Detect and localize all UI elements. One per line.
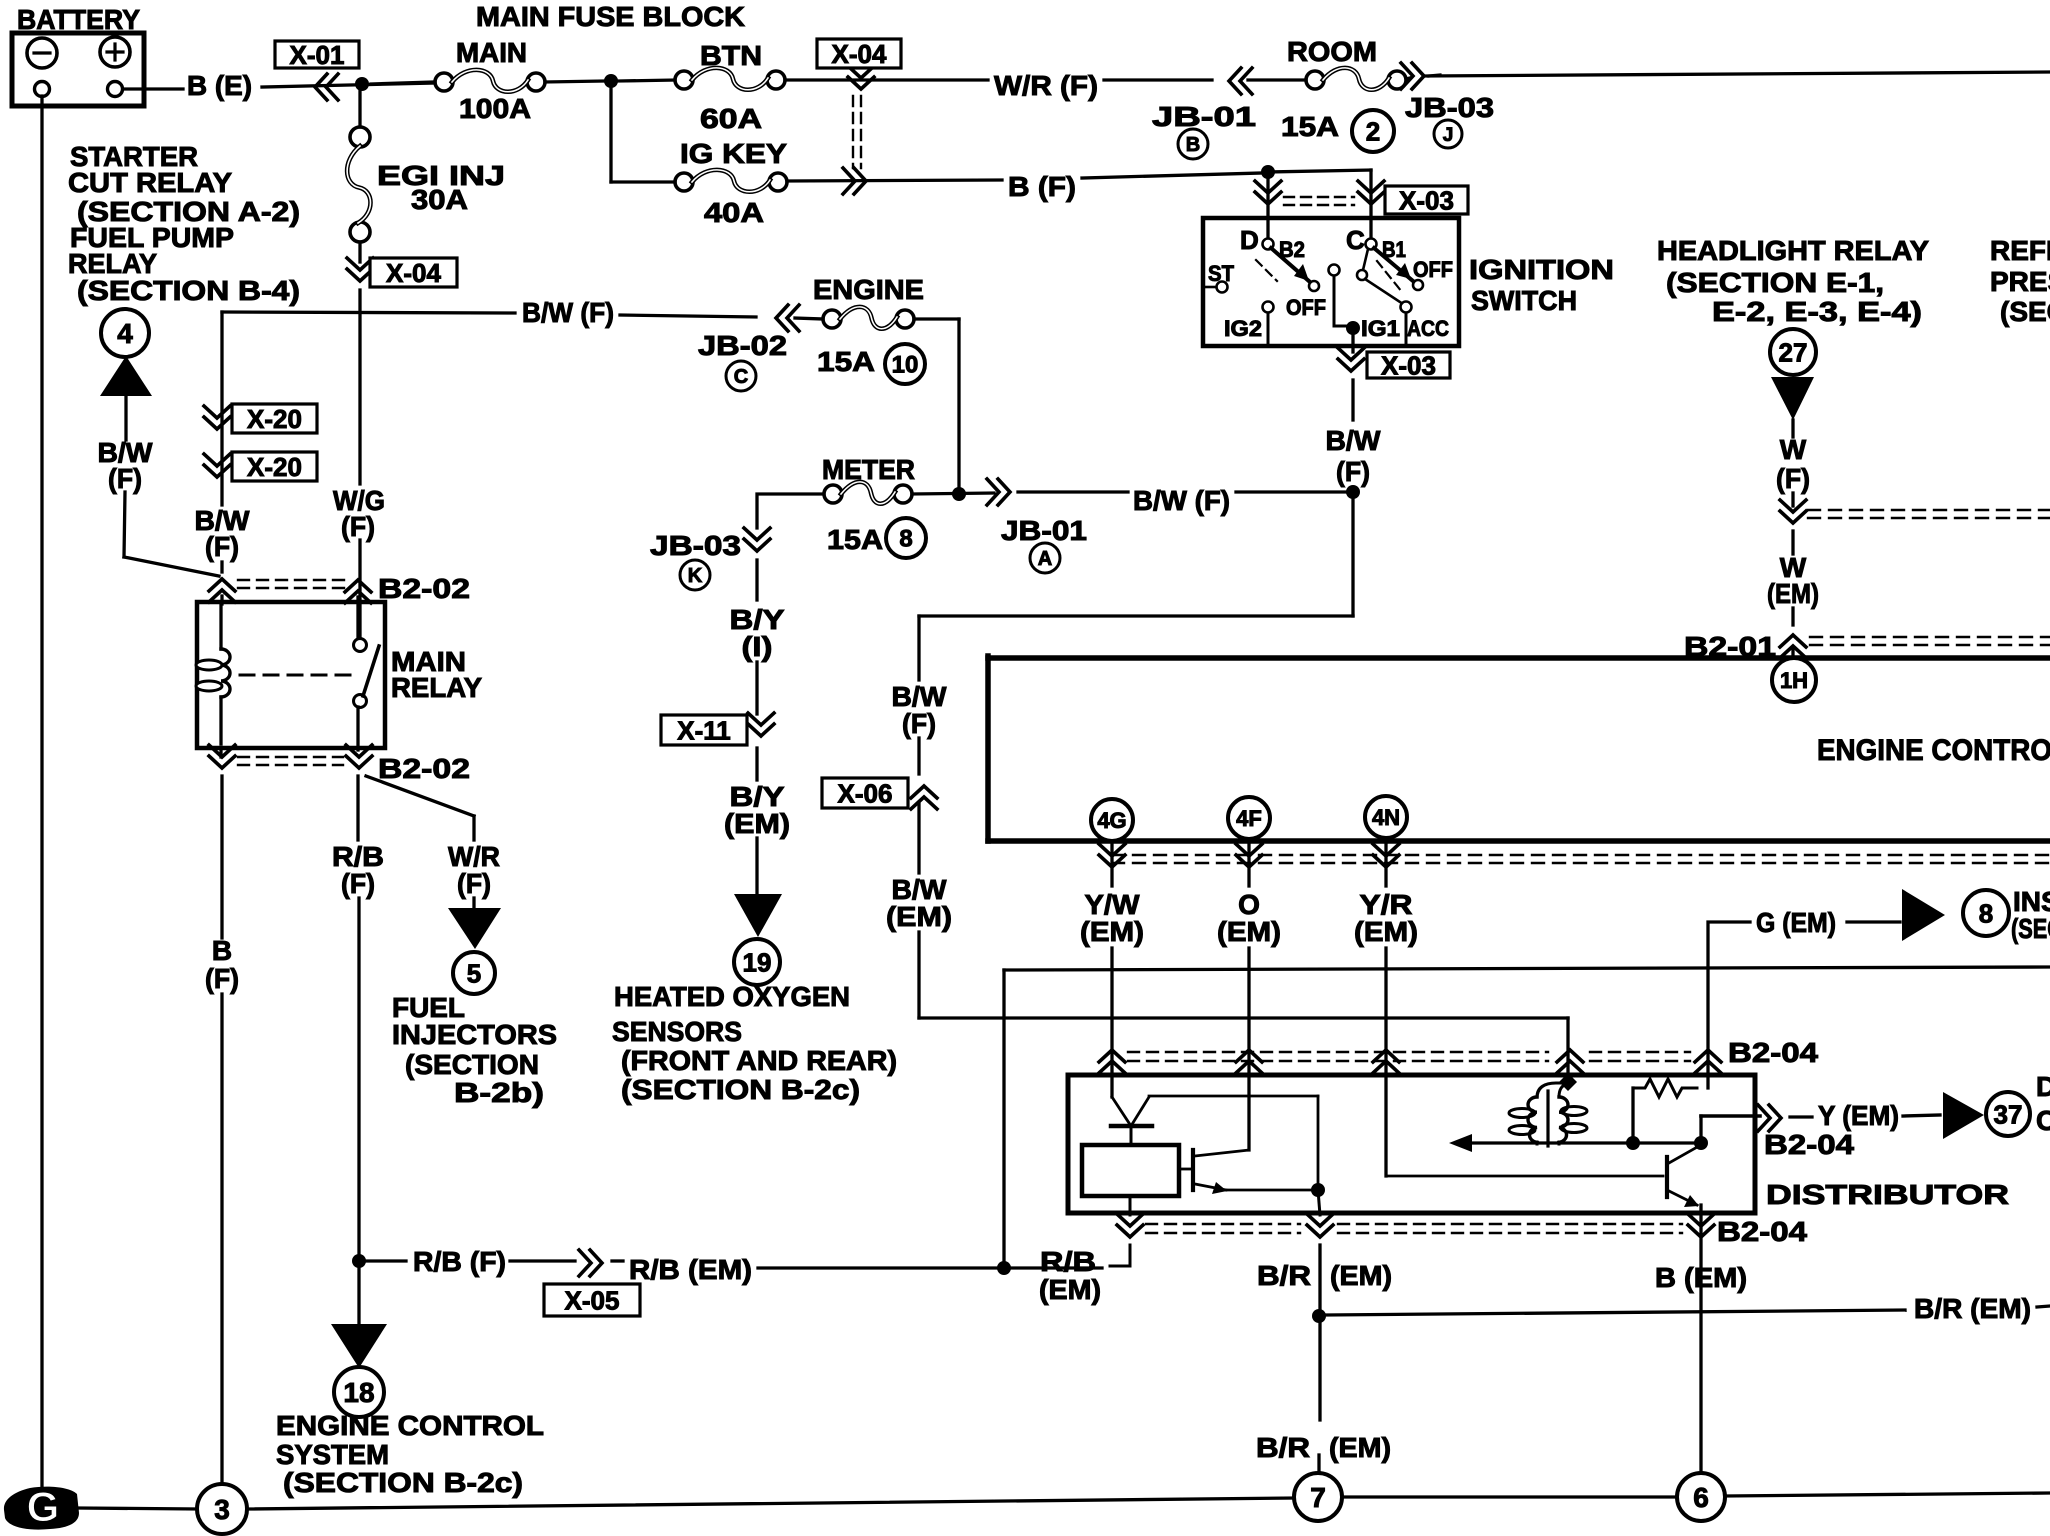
svg-text:C: C: [734, 366, 748, 388]
svg-text:B/R: B/R: [1257, 1260, 1311, 1291]
svg-text:B2-04: B2-04: [1728, 1037, 1819, 1068]
svg-text:K: K: [688, 565, 703, 587]
svg-text:IG KEY: IG KEY: [680, 138, 787, 169]
svg-text:X-11: X-11: [677, 715, 731, 745]
svg-text:15A: 15A: [827, 524, 883, 555]
svg-text:4: 4: [117, 318, 133, 349]
svg-text:18: 18: [343, 1377, 374, 1408]
svg-text:B/W (F): B/W (F): [1133, 485, 1230, 516]
svg-text:E-2, E-3, E-4): E-2, E-3, E-4): [1712, 296, 1922, 327]
svg-text:X-03: X-03: [1381, 350, 1436, 380]
svg-text:C: C: [2036, 1105, 2050, 1136]
svg-text:B2-02: B2-02: [378, 753, 470, 784]
svg-text:(F): (F): [1336, 456, 1370, 487]
svg-text:(F): (F): [205, 963, 239, 994]
svg-text:B (F): B (F): [1008, 171, 1076, 202]
svg-text:DISTRIBUTOR: DISTRIBUTOR: [1766, 1179, 2009, 1210]
svg-text:(SEC: (SEC: [2000, 296, 2050, 327]
svg-text:(F): (F): [108, 463, 142, 494]
svg-text:B2-04: B2-04: [1764, 1129, 1855, 1160]
svg-text:4G: 4G: [1097, 808, 1126, 833]
svg-text:(F): (F): [205, 531, 239, 562]
svg-text:IGNITION: IGNITION: [1469, 254, 1614, 285]
svg-text:D: D: [1240, 225, 1259, 255]
svg-text:(EM): (EM): [1329, 1432, 1391, 1463]
svg-text:(EM): (EM): [724, 808, 790, 839]
svg-text:(SECTION: (SECTION: [405, 1049, 539, 1080]
svg-text:MAIN: MAIN: [456, 37, 527, 68]
svg-text:INJECTORS: INJECTORS: [392, 1019, 557, 1050]
svg-text:W/R (F): W/R (F): [994, 70, 1098, 101]
svg-text:X-04: X-04: [832, 39, 887, 69]
svg-text:8: 8: [1979, 898, 1993, 928]
svg-text:B (EM): B (EM): [1655, 1262, 1747, 1293]
svg-text:4N: 4N: [1372, 805, 1400, 830]
svg-text:SENSORS: SENSORS: [612, 1016, 742, 1047]
svg-text:D: D: [2036, 1071, 2050, 1102]
svg-text:(I): (I): [742, 631, 773, 662]
svg-text:R/B (EM): R/B (EM): [629, 1254, 752, 1285]
svg-text:JB-01: JB-01: [1001, 515, 1087, 546]
svg-text:5: 5: [467, 958, 481, 988]
svg-text:SWITCH: SWITCH: [1471, 285, 1577, 316]
svg-text:(F): (F): [1776, 463, 1810, 494]
svg-text:15A: 15A: [1281, 111, 1339, 142]
svg-text:B-2b): B-2b): [454, 1077, 544, 1108]
svg-text:HEATED OXYGEN: HEATED OXYGEN: [614, 981, 850, 1012]
svg-text:X-20: X-20: [247, 452, 302, 482]
svg-text:6: 6: [1693, 1482, 1709, 1513]
svg-text:27: 27: [1779, 337, 1808, 367]
svg-text:B (E): B (E): [187, 70, 252, 101]
svg-text:B2-04: B2-04: [1717, 1216, 1808, 1247]
svg-text:ACC: ACC: [1407, 316, 1449, 341]
svg-text:Y (EM): Y (EM): [1818, 1100, 1899, 1131]
svg-text:CUT RELAY: CUT RELAY: [68, 167, 232, 198]
svg-text:RELAY: RELAY: [391, 672, 482, 703]
svg-text:IG2: IG2: [1224, 316, 1262, 341]
svg-text:B/R: B/R: [1256, 1432, 1310, 1463]
svg-text:REFR: REFR: [1990, 235, 2050, 266]
svg-text:BATTERY: BATTERY: [17, 4, 140, 35]
svg-text:R/B (F): R/B (F): [413, 1246, 506, 1277]
svg-text:(EM): (EM): [1354, 916, 1418, 947]
svg-text:(SECTION B-2c): (SECTION B-2c): [283, 1467, 523, 1498]
svg-text:(F): (F): [341, 868, 375, 899]
svg-text:B/R (EM): B/R (EM): [1914, 1293, 2031, 1324]
svg-text:B: B: [212, 935, 232, 966]
svg-text:4F: 4F: [1236, 806, 1262, 831]
svg-text:PRES: PRES: [1990, 266, 2050, 297]
svg-text:OFF: OFF: [1286, 295, 1326, 320]
svg-text:HEADLIGHT RELAY: HEADLIGHT RELAY: [1657, 235, 1929, 266]
svg-text:A: A: [1038, 548, 1052, 570]
svg-text:37: 37: [1994, 1099, 2023, 1129]
svg-text:2: 2: [1366, 116, 1380, 146]
svg-text:X-06: X-06: [838, 778, 893, 808]
svg-text:JB-01: JB-01: [1152, 101, 1256, 132]
svg-text:X-05: X-05: [565, 1285, 620, 1315]
svg-text:(EM): (EM): [1330, 1260, 1392, 1291]
svg-text:G (EM): G (EM): [1756, 907, 1836, 938]
svg-text:(F): (F): [457, 868, 491, 899]
svg-text:X-20: X-20: [247, 404, 302, 434]
svg-text:C: C: [1346, 225, 1365, 255]
svg-text:JB-02: JB-02: [698, 330, 787, 361]
svg-text:SYSTEM: SYSTEM: [276, 1439, 389, 1470]
svg-text:(SECTION B-2c): (SECTION B-2c): [621, 1074, 860, 1105]
svg-text:W: W: [1780, 434, 1807, 465]
svg-text:JB-03: JB-03: [1405, 92, 1494, 123]
svg-text:(EM): (EM): [1217, 916, 1281, 947]
svg-text:B/W: B/W: [1326, 425, 1382, 456]
svg-text:G: G: [27, 1483, 60, 1530]
svg-text:30A: 30A: [411, 184, 468, 215]
svg-text:(SEC: (SEC: [2011, 913, 2050, 944]
svg-text:IG1: IG1: [1361, 316, 1400, 341]
svg-text:7: 7: [1310, 1482, 1326, 1513]
svg-text:40A: 40A: [704, 197, 764, 228]
svg-text:(SECTION B-4): (SECTION B-4): [77, 275, 300, 306]
svg-text:MAIN FUSE BLOCK: MAIN FUSE BLOCK: [476, 1, 745, 32]
svg-text:ENGINE: ENGINE: [813, 274, 924, 305]
svg-text:B: B: [1186, 134, 1200, 156]
svg-text:B2-02: B2-02: [378, 573, 470, 604]
svg-text:J: J: [1443, 125, 1454, 146]
svg-text:10: 10: [892, 352, 919, 379]
svg-text:B/W (F): B/W (F): [522, 297, 614, 328]
svg-text:(EM): (EM): [1080, 916, 1144, 947]
svg-text:60A: 60A: [700, 103, 762, 134]
svg-text:OFF: OFF: [1413, 257, 1453, 282]
svg-text:METER: METER: [822, 454, 915, 485]
svg-text:X-01: X-01: [290, 40, 345, 70]
svg-text:(SECTION E-1,: (SECTION E-1,: [1666, 267, 1884, 298]
svg-text:ENGINE CONTROL: ENGINE CONTROL: [276, 1410, 544, 1441]
svg-text:1H: 1H: [1780, 668, 1808, 693]
svg-text:(F): (F): [341, 511, 375, 542]
svg-text:(EM): (EM): [1767, 578, 1819, 609]
svg-text:(FRONT AND REAR): (FRONT AND REAR): [621, 1045, 897, 1076]
svg-text:ENGINE CONTROL: ENGINE CONTROL: [1817, 734, 2050, 767]
svg-text:3: 3: [214, 1494, 230, 1525]
svg-text:19: 19: [743, 947, 772, 977]
svg-text:100A: 100A: [459, 93, 531, 124]
svg-text:JB-03: JB-03: [650, 530, 741, 561]
svg-text:(EM): (EM): [1039, 1274, 1101, 1305]
svg-text:(F): (F): [902, 708, 936, 739]
svg-text:8: 8: [899, 526, 912, 553]
svg-text:X-03: X-03: [1399, 185, 1454, 215]
svg-text:R/B: R/B: [1040, 1246, 1096, 1277]
svg-text:(EM): (EM): [886, 901, 952, 932]
svg-text:X-04: X-04: [386, 258, 441, 288]
svg-text:ROOM: ROOM: [1287, 36, 1377, 67]
svg-text:15A: 15A: [817, 346, 875, 377]
